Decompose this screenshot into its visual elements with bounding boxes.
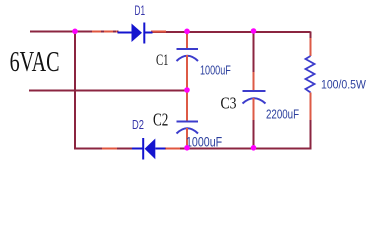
wire middle (AC return)	[29, 90, 188, 92]
wire bottom rail bright segment b	[166, 148, 180, 150]
capacitor C1	[177, 33, 199, 91]
wire bottom rail	[75, 148, 133, 150]
node: C3 bottom junction	[251, 145, 257, 151]
svg-text:6VAC: 6VAC	[10, 47, 60, 78]
svg-text:1000uF: 1000uF	[200, 64, 231, 78]
diode D2	[132, 138, 165, 160]
node: C3 top junction	[251, 28, 257, 34]
capacitor C3	[243, 32, 266, 149]
svg-text:D2: D2	[132, 119, 144, 133]
wire right rail upper	[310, 32, 312, 40]
node: left rail tap	[72, 29, 78, 35]
wire bottom rail bright segment a	[102, 148, 117, 150]
wire top rail bright segment b	[151, 31, 166, 33]
svg-text:D1: D1	[135, 4, 146, 19]
svg-text:1000uF: 1000uF	[186, 134, 222, 150]
svg-text:C3: C3	[221, 94, 237, 113]
svg-text:100/0.5W: 100/0.5W	[321, 79, 366, 92]
capacitor C2	[177, 91, 199, 148]
resistor R1	[306, 38, 315, 120]
svg-text:2200uF: 2200uF	[266, 108, 299, 122]
node: C1 top junction	[184, 29, 190, 35]
svg-text:C2: C2	[153, 111, 168, 130]
wire top rail	[30, 31, 119, 33]
wire left rail vertical	[74, 32, 76, 150]
wire top rail bright segment a	[92, 31, 117, 33]
node: C2 bottom junction	[184, 145, 190, 151]
wire right rail lower	[310, 120, 312, 150]
node: C1/C2 midpoint junction	[184, 87, 190, 93]
svg-text:C1: C1	[156, 51, 169, 69]
diode D1	[118, 23, 153, 44]
